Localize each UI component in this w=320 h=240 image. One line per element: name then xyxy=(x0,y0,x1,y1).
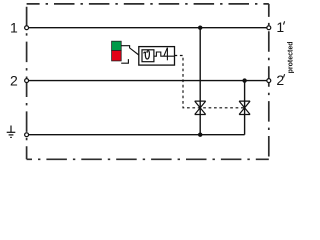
svg-text:protected: protected xyxy=(287,41,294,73)
svg-text:2: 2 xyxy=(276,72,284,88)
svg-text:1: 1 xyxy=(10,20,18,36)
svg-text:1: 1 xyxy=(276,19,284,35)
svg-text:2: 2 xyxy=(10,73,18,89)
